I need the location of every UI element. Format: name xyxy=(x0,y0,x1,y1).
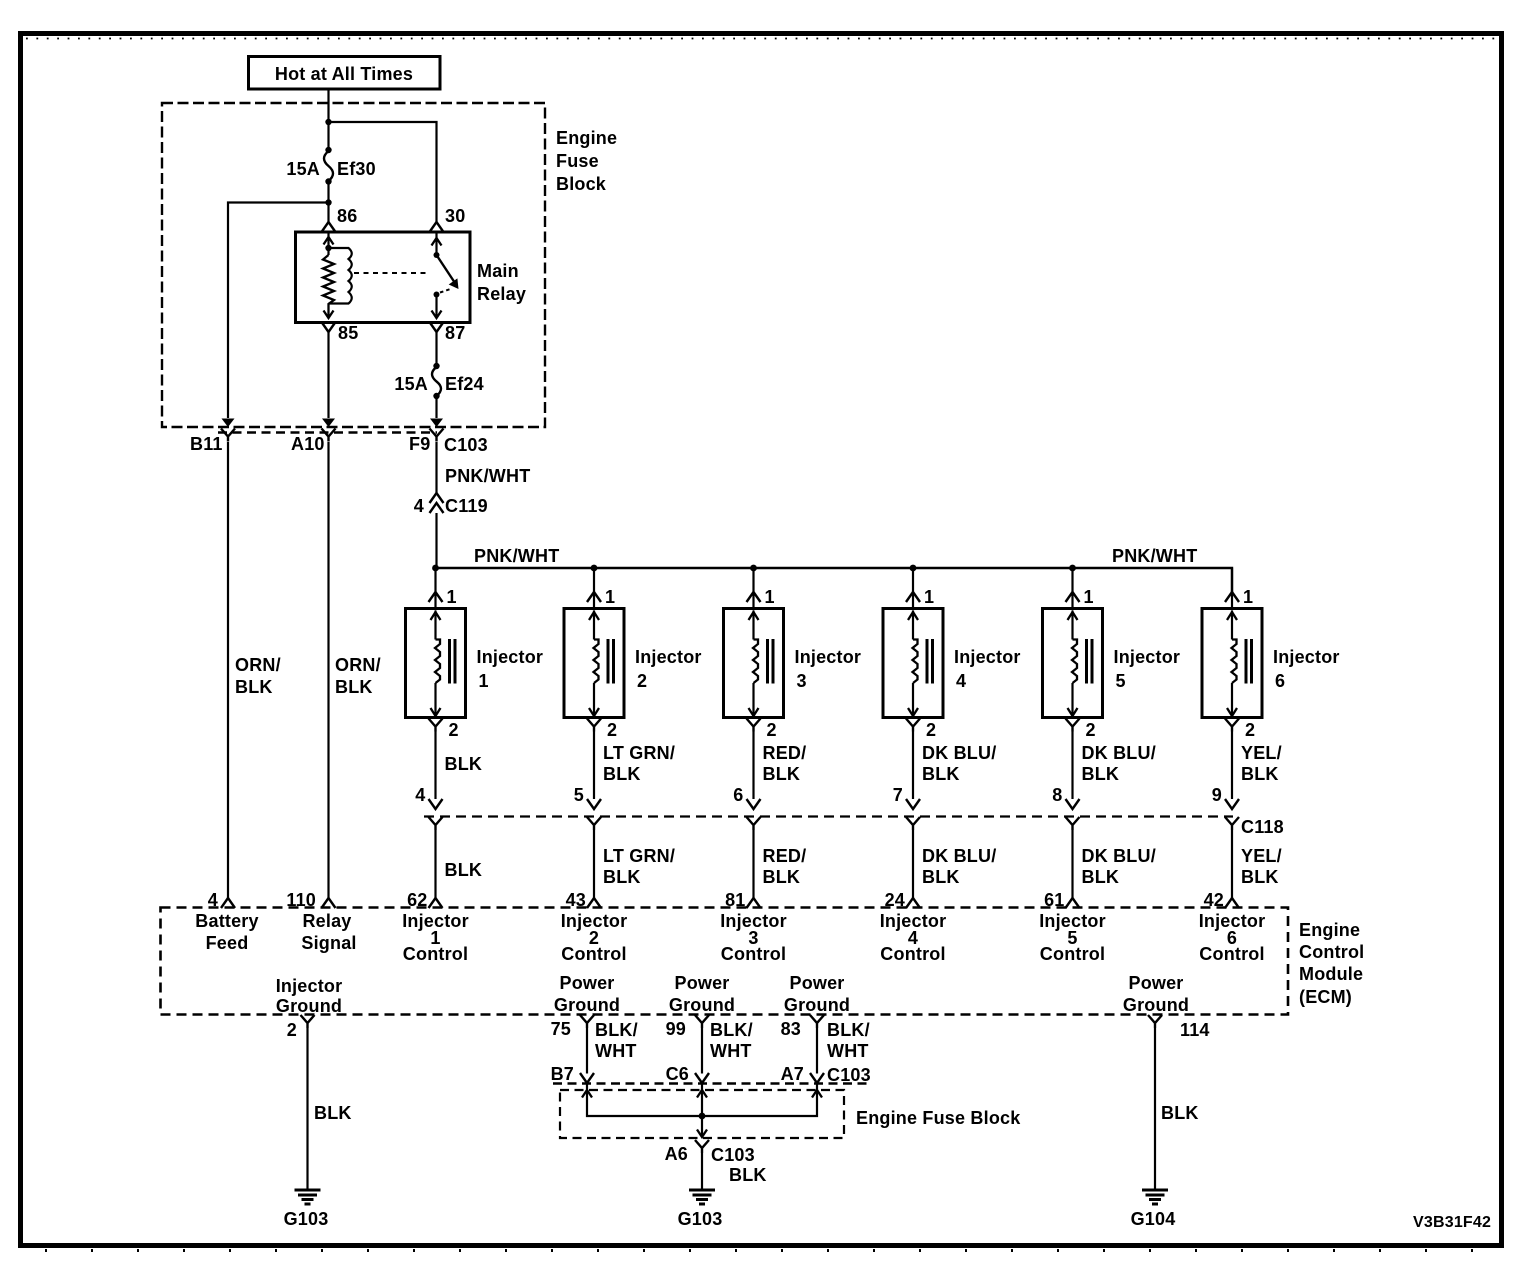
ECM pin 75 power ground xyxy=(551,973,621,1039)
wire: BLK injector ground to G103 xyxy=(308,1028,352,1190)
svg-text:Control: Control xyxy=(721,944,786,964)
connector C118 line xyxy=(424,815,1233,817)
svg-text:BLK: BLK xyxy=(314,1103,352,1123)
fuse Ef30 15A xyxy=(286,147,375,185)
svg-text:Ground: Ground xyxy=(554,995,620,1015)
svg-text:G104: G104 xyxy=(1131,1209,1176,1229)
wire: bus drop to injector 6 pin 1 xyxy=(1231,568,1233,609)
svg-text:1: 1 xyxy=(605,587,615,607)
svg-text:YEL/: YEL/ xyxy=(1241,846,1282,866)
pin 1 of injector 1 xyxy=(429,587,457,607)
svg-text:PNK/WHT: PNK/WHT xyxy=(1112,546,1197,566)
wire: branch left to B11 battery feed xyxy=(228,203,329,419)
svg-text:Control: Control xyxy=(403,944,468,964)
node/junction at top branch xyxy=(325,119,331,125)
wire: PNK/WHT from F9 to C119 xyxy=(437,442,531,493)
svg-text:86: 86 xyxy=(337,206,357,226)
junction on PNK/WHT bus at injector 1 xyxy=(432,565,439,572)
engine fuse block boundary (top) xyxy=(162,103,617,427)
connector C118 receptacle below line, injector 3 circuit xyxy=(747,817,761,830)
svg-text:Engine Fuse Block: Engine Fuse Block xyxy=(856,1108,1021,1128)
svg-text:Ef24: Ef24 xyxy=(445,374,484,394)
svg-text:6: 6 xyxy=(733,785,743,805)
svg-text:BLK: BLK xyxy=(729,1165,767,1185)
svg-text:Hot at All Times: Hot at All Times xyxy=(275,64,413,84)
svg-text:Feed: Feed xyxy=(206,933,249,953)
wire: C118 to ECM injector 6 control pin 42 xyxy=(1232,830,1282,898)
wire: bus drop to injector 4 pin 1 xyxy=(912,568,914,609)
svg-text:4: 4 xyxy=(956,671,966,691)
svg-text:Ground: Ground xyxy=(276,996,342,1016)
connector C118 pin 7 xyxy=(893,785,920,809)
ground G104 xyxy=(1131,1190,1176,1229)
svg-text:Injector: Injector xyxy=(795,647,862,667)
svg-text:Ground: Ground xyxy=(1123,995,1189,1015)
svg-text:2: 2 xyxy=(637,671,647,691)
pin 2 of injector 4 xyxy=(906,719,936,741)
injector 2 (solenoid valve) xyxy=(564,609,702,718)
wire: bus drop to injector 2 pin 1 xyxy=(593,568,595,609)
pin 85 of main relay xyxy=(322,322,359,343)
svg-text:BLK: BLK xyxy=(235,677,273,697)
svg-text:RED/: RED/ xyxy=(763,743,807,763)
ECM Engine Control Module boundary xyxy=(161,908,1365,1015)
svg-text:5: 5 xyxy=(574,785,584,805)
relay K1 Main Relay xyxy=(296,232,527,323)
svg-text:V3B31F42: V3B31F42 xyxy=(1413,1214,1491,1231)
svg-text:3: 3 xyxy=(797,671,807,691)
svg-text:A6: A6 xyxy=(665,1144,688,1164)
wire: injector 1 pin 2 to C118 pin 4 xyxy=(436,732,483,800)
svg-text:YEL/: YEL/ xyxy=(1241,743,1282,763)
pin 87 of main relay xyxy=(430,322,466,343)
svg-text:BLK: BLK xyxy=(603,764,641,784)
connector C119 pin 4 xyxy=(414,493,488,516)
wire: injector 3 pin 2 to C118 pin 6 xyxy=(754,732,807,800)
injector 4 (solenoid valve) xyxy=(883,609,1021,718)
svg-text:LT GRN/: LT GRN/ xyxy=(603,743,675,763)
svg-text:DK BLU/: DK BLU/ xyxy=(922,846,996,866)
injector 6 (solenoid valve) xyxy=(1202,609,1340,718)
connector pin C6 of C103 xyxy=(666,1064,709,1084)
svg-text:BLK: BLK xyxy=(1241,764,1279,784)
figure id V3B31F42 xyxy=(1413,1214,1491,1231)
svg-text:8: 8 xyxy=(1052,785,1062,805)
svg-text:15A: 15A xyxy=(394,374,428,394)
svg-text:ORN/: ORN/ xyxy=(235,655,281,675)
ECM pin 62 injector 1 control xyxy=(402,890,469,964)
svg-text:1: 1 xyxy=(924,587,934,607)
svg-text:Control: Control xyxy=(1199,944,1264,964)
svg-text:2: 2 xyxy=(926,720,936,740)
svg-text:LT GRN/: LT GRN/ xyxy=(603,846,675,866)
connector C118 receptacle below line, injector 1 circuit xyxy=(429,817,443,830)
svg-text:DK BLU/: DK BLU/ xyxy=(922,743,996,763)
connector pin A6 of C103 xyxy=(665,1140,755,1165)
svg-text:2: 2 xyxy=(767,720,777,740)
svg-text:PNK/WHT: PNK/WHT xyxy=(445,466,530,486)
svg-text:83: 83 xyxy=(781,1019,801,1039)
connector C118 pin 6 xyxy=(733,785,760,809)
svg-text:6: 6 xyxy=(1275,671,1285,691)
svg-text:30: 30 xyxy=(445,206,465,226)
pin 1 of injector 4 xyxy=(906,587,934,607)
connector C118 receptacle below line, injector 2 circuit xyxy=(587,817,601,830)
svg-text:BLK: BLK xyxy=(763,867,801,887)
svg-text:C6: C6 xyxy=(666,1064,689,1084)
svg-text:C119: C119 xyxy=(445,496,488,516)
connector pin B7 of C103 xyxy=(551,1064,594,1084)
connector pin F9 of C103 xyxy=(409,419,444,455)
connector C118 receptacle below line, injector 6 circuit xyxy=(1225,817,1239,830)
ECM pin 110 relay signal xyxy=(286,890,356,953)
pin 2 of injector 6 xyxy=(1225,719,1255,741)
svg-text:Ef30: Ef30 xyxy=(337,159,376,179)
svg-text:5: 5 xyxy=(1116,671,1126,691)
wire: bus drop to injector 1 pin 1 xyxy=(434,568,436,609)
wire: bus drop to injector 5 pin 1 xyxy=(1071,568,1073,609)
svg-text:Injector: Injector xyxy=(1273,647,1340,667)
svg-text:Engine: Engine xyxy=(556,128,617,148)
ECM pin 2 injector ground xyxy=(276,976,343,1040)
connector C118 pin 8 xyxy=(1052,785,1079,809)
svg-text:BLK: BLK xyxy=(445,860,483,880)
wire: C118 to ECM injector 5 control pin 61 xyxy=(1073,830,1156,898)
svg-text:Ground: Ground xyxy=(669,995,735,1015)
svg-text:DK BLU/: DK BLU/ xyxy=(1082,846,1156,866)
pin 1 of injector 6 xyxy=(1225,587,1253,607)
svg-text:4: 4 xyxy=(415,785,425,805)
svg-text:A7: A7 xyxy=(781,1064,804,1084)
svg-text:Fuse: Fuse xyxy=(556,151,599,171)
svg-text:2: 2 xyxy=(1245,720,1255,740)
ECM pin 61 injector 5 control xyxy=(1039,890,1106,964)
svg-text:BLK: BLK xyxy=(1082,764,1120,784)
connector C103 line (B11 A10 F9) xyxy=(218,431,437,433)
svg-text:C118: C118 xyxy=(1241,817,1284,837)
svg-text:F9: F9 xyxy=(409,434,430,454)
svg-text:9: 9 xyxy=(1212,785,1222,805)
wire: branch to relay pin 30 xyxy=(329,122,437,222)
fuse Ef24 15A xyxy=(394,363,483,399)
wire: PNK/WHT from C119 to injector feed bus xyxy=(435,513,437,568)
svg-text:Control: Control xyxy=(561,944,626,964)
svg-text:BLK/: BLK/ xyxy=(710,1020,753,1040)
svg-text:Injector: Injector xyxy=(635,647,702,667)
svg-text:85: 85 xyxy=(338,323,358,343)
connector C118 receptacle below line, injector 4 circuit xyxy=(906,817,920,830)
injector 5 (solenoid valve) xyxy=(1043,609,1181,718)
svg-text:Injector: Injector xyxy=(477,647,544,667)
connector C103 line (bottom) xyxy=(553,1082,872,1084)
svg-text:Power: Power xyxy=(789,973,844,993)
wire: fuse Ef30 to relay pin 86 xyxy=(327,182,329,223)
connector label C103 (bottom) xyxy=(827,1065,871,1085)
svg-text:A10: A10 xyxy=(291,434,325,454)
connector C118 pin 5 xyxy=(574,785,601,809)
svg-text:C103: C103 xyxy=(827,1065,871,1085)
svg-text:C103: C103 xyxy=(444,435,488,455)
svg-text:87: 87 xyxy=(445,323,465,343)
svg-text:Battery: Battery xyxy=(195,911,258,931)
pin 2 of injector 1 xyxy=(429,719,459,741)
pin 1 of injector 3 xyxy=(747,587,775,607)
svg-text:Main: Main xyxy=(477,261,519,281)
junction on PNK/WHT bus at injector 2 xyxy=(591,565,598,572)
wire: C118 to ECM injector 3 control pin 81 xyxy=(754,830,807,898)
svg-text:C103: C103 xyxy=(711,1145,755,1165)
svg-text:75: 75 xyxy=(551,1019,571,1039)
svg-text:Relay: Relay xyxy=(302,911,351,931)
svg-text:2: 2 xyxy=(607,720,617,740)
wire: battery feed from Hot at All Times to fuse Ef30 xyxy=(327,89,329,149)
svg-text:Relay: Relay xyxy=(477,284,526,304)
svg-text:WHT: WHT xyxy=(595,1041,637,1061)
svg-text:2: 2 xyxy=(1086,720,1096,740)
junction on PNK/WHT bus at injector 5 xyxy=(1069,565,1076,572)
ECM pin 114 power ground xyxy=(1123,973,1210,1040)
svg-text:BLK: BLK xyxy=(1082,867,1120,887)
ECM pin 43 injector 2 control xyxy=(561,890,628,964)
pin 1 of injector 5 xyxy=(1066,587,1094,607)
connector label C103 xyxy=(444,435,488,455)
pin 2 of injector 3 xyxy=(747,719,777,741)
connector C118 receptacle below line, injector 5 circuit xyxy=(1066,817,1080,830)
connector C118 pin 9 xyxy=(1212,785,1239,809)
svg-text:2: 2 xyxy=(449,720,459,740)
svg-text:Module: Module xyxy=(1299,964,1363,984)
wire: injector 2 pin 2 to C118 pin 5 xyxy=(594,732,675,800)
ECM pin 83 power ground xyxy=(781,973,851,1039)
wire: BLK from A6 to G103 xyxy=(702,1153,767,1190)
svg-text:Power: Power xyxy=(674,973,729,993)
wire: injector 5 pin 2 to C118 pin 8 xyxy=(1073,732,1156,800)
svg-text:B11: B11 xyxy=(190,434,223,454)
wire: ORN/BLK from B11 to ECM battery feed pin 4 xyxy=(228,442,281,898)
svg-text:Control: Control xyxy=(880,944,945,964)
wire: relay pin 85 to connector A10 xyxy=(327,332,329,418)
wire: injector 4 pin 2 to C118 pin 7 xyxy=(913,732,996,800)
svg-text:G103: G103 xyxy=(284,1209,329,1229)
svg-text:WHT: WHT xyxy=(710,1041,752,1061)
connector pin A7 of C103 xyxy=(781,1064,824,1084)
wire: BLK/WHT from ECM pin 99 to C6 xyxy=(702,1020,753,1074)
pin 86 of main relay xyxy=(322,206,358,232)
junction on PNK/WHT bus at injector 4 xyxy=(910,565,917,572)
connector pin A10 of C103 xyxy=(291,419,336,455)
svg-text:15A: 15A xyxy=(286,159,320,179)
wire: ground bus inside engine fuse block xyxy=(582,1084,822,1138)
wire: injector 6 pin 2 to C118 pin 9 xyxy=(1232,732,1282,800)
svg-text:Injector: Injector xyxy=(954,647,1021,667)
svg-text:Signal: Signal xyxy=(301,933,356,953)
svg-text:(ECM): (ECM) xyxy=(1299,987,1352,1007)
svg-text:BLK: BLK xyxy=(1161,1103,1199,1123)
svg-text:1: 1 xyxy=(1084,587,1094,607)
pin 2 of injector 2 xyxy=(587,719,617,741)
injector 1 (solenoid valve) xyxy=(406,609,544,718)
svg-text:BLK/: BLK/ xyxy=(827,1020,870,1040)
svg-text:RED/: RED/ xyxy=(763,846,807,866)
wire: bus drop to injector 3 pin 1 xyxy=(752,568,754,609)
wire: C118 to ECM injector 2 control pin 43 xyxy=(594,830,675,898)
svg-text:B7: B7 xyxy=(551,1064,574,1084)
junction on PNK/WHT bus at injector 3 xyxy=(750,565,757,572)
svg-text:PNK/WHT: PNK/WHT xyxy=(474,546,559,566)
injector 3 (solenoid valve) xyxy=(724,609,862,718)
svg-text:1: 1 xyxy=(765,587,775,607)
connector C118 pin 4 xyxy=(415,785,442,809)
svg-text:4: 4 xyxy=(414,496,424,516)
svg-text:DK BLU/: DK BLU/ xyxy=(1082,743,1156,763)
svg-text:114: 114 xyxy=(1180,1020,1210,1040)
pin 30 of main relay xyxy=(430,206,466,232)
node: Hot at All Times feed box xyxy=(249,57,441,90)
ground G103 (left) xyxy=(284,1190,329,1229)
wire: PNK/WHT injector supply bus xyxy=(436,546,1233,592)
connector pin B11 of C103 xyxy=(190,419,235,455)
svg-text:BLK: BLK xyxy=(763,764,801,784)
ECM pin 81 injector 3 control xyxy=(720,890,787,964)
svg-text:Ground: Ground xyxy=(784,995,850,1015)
svg-text:BLK: BLK xyxy=(445,754,483,774)
ECM pin 99 power ground xyxy=(666,973,736,1039)
svg-text:BLK/: BLK/ xyxy=(595,1020,638,1040)
ground G103 (center) xyxy=(678,1190,723,1229)
wire: BLK/WHT from ECM pin 83 to A7 xyxy=(817,1020,870,1074)
svg-text:Power: Power xyxy=(559,973,614,993)
svg-text:BLK: BLK xyxy=(1241,867,1279,887)
svg-text:Control: Control xyxy=(1040,944,1105,964)
svg-text:G103: G103 xyxy=(678,1209,723,1229)
ECM pin 24 injector 4 control xyxy=(880,890,947,964)
svg-text:ORN/: ORN/ xyxy=(335,655,381,675)
connector label C118 xyxy=(1241,817,1284,837)
wire: fuse Ef24 to connector F9 xyxy=(435,396,437,418)
junction to battery feed branch xyxy=(325,199,331,205)
svg-text:1: 1 xyxy=(479,671,489,691)
pin 1 of injector 2 xyxy=(587,587,615,607)
ECM pin 4 battery feed xyxy=(195,890,258,953)
wire: BLK/WHT from ECM pin 75 to B7 xyxy=(587,1020,638,1074)
pin 2 of injector 5 xyxy=(1066,719,1096,741)
svg-text:BLK: BLK xyxy=(603,867,641,887)
svg-text:Power: Power xyxy=(1128,973,1183,993)
svg-text:Injector: Injector xyxy=(1114,647,1181,667)
wire: C118 to ECM injector 4 control pin 24 xyxy=(913,830,996,898)
wire: ORN/BLK from A10 to ECM relay signal pin 110 xyxy=(329,442,381,898)
svg-text:2: 2 xyxy=(287,1020,297,1040)
svg-text:Engine: Engine xyxy=(1299,920,1360,940)
svg-text:BLK: BLK xyxy=(922,764,960,784)
engine fuse block boundary (bottom) xyxy=(560,1090,1021,1138)
svg-text:1: 1 xyxy=(1243,587,1253,607)
svg-text:Control: Control xyxy=(1299,942,1364,962)
svg-text:Injector: Injector xyxy=(276,976,343,996)
svg-text:1: 1 xyxy=(447,587,457,607)
svg-text:BLK: BLK xyxy=(335,677,373,697)
svg-text:WHT: WHT xyxy=(827,1041,869,1061)
wire: C118 to ECM injector 1 control pin 62 xyxy=(436,830,483,898)
svg-text:Block: Block xyxy=(556,174,607,194)
ECM pin 42 injector 6 control xyxy=(1199,890,1266,964)
wire: BLK from ECM pin 114 to G104 xyxy=(1155,1028,1199,1190)
wire: relay pin 87 to fuse Ef24 xyxy=(435,332,437,365)
svg-text:7: 7 xyxy=(893,785,903,805)
svg-text:99: 99 xyxy=(666,1019,686,1039)
svg-text:BLK: BLK xyxy=(922,867,960,887)
